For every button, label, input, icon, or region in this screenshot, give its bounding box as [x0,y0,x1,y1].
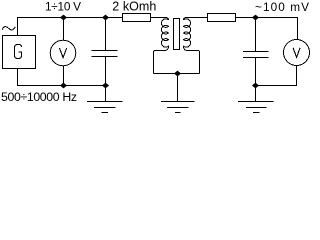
svg-text:500÷10000 Hz: 500÷10000 Hz [1,90,77,104]
svg-text:~100 mV: ~100 mV [255,0,309,14]
svg-text:1÷10 V: 1÷10 V [45,0,81,13]
svg-text:2 kOmh: 2 kOmh [112,0,156,14]
